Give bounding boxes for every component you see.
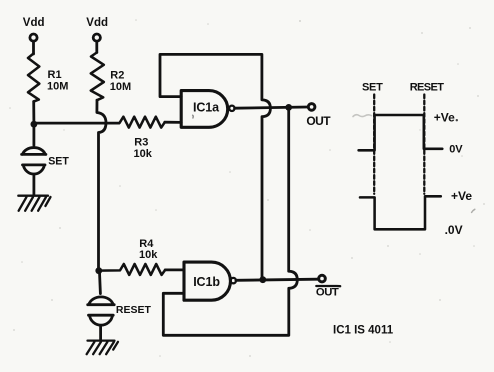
switch SET (push button) — [33, 125, 36, 145]
NAND gate IC1b — [184, 262, 230, 300]
svg-text:10M: 10M — [47, 81, 68, 93]
svg-text:10k: 10k — [134, 148, 153, 160]
wire node B down to RESET switch — [98, 272, 102, 294]
junction on IC1a output — [285, 104, 292, 111]
label OUT-bar with overline — [316, 285, 340, 288]
inverter bubble IC1b — [231, 278, 236, 283]
terminal Vdd right — [93, 34, 100, 41]
svg-text:+Ve: +Ve — [434, 110, 455, 124]
svg-text:RESET: RESET — [410, 82, 445, 94]
ground (RESET) — [87, 341, 118, 355]
wire R1 to node A — [32, 102, 35, 123]
terminal OUT (top) — [308, 104, 315, 111]
svg-text:0V: 0V — [449, 143, 463, 155]
timing diagram: dashed line under SET — [373, 95, 375, 194]
timing diagram: waveform OUT — [359, 115, 443, 150]
scan artifact: small slash near +Ve — [472, 209, 475, 212]
svg-text:SET: SET — [362, 82, 383, 94]
svg-text:10k: 10k — [139, 249, 158, 261]
wire IC1a output to OUT — [235, 107, 308, 108]
switch RESET (push button) — [88, 297, 115, 305]
svg-text:IC1a: IC1a — [193, 101, 220, 115]
timing diagram: dashed line under RESET — [423, 95, 425, 194]
terminal Vdd left — [30, 34, 37, 41]
junction node B (R2/R4/RESET) — [95, 267, 102, 274]
junction on IC1b output — [259, 276, 266, 283]
resistor R1 — [28, 54, 39, 102]
svg-text:OUT: OUT — [316, 287, 339, 299]
scan artifact: faint squiggle left of waveform — [353, 115, 372, 117]
svg-text:OUT: OUT — [306, 114, 331, 128]
wire R2 down with hop over node-A wire — [97, 100, 106, 268]
wire IC1b output to OUT-bar — [236, 279, 318, 280]
svg-text:R3: R3 — [134, 136, 148, 148]
svg-text:10M: 10M — [110, 81, 131, 93]
svg-text:RESET: RESET — [116, 304, 152, 316]
wire SET to ground — [33, 176, 36, 195]
ground (SET) — [18, 196, 50, 211]
terminal OUT-bar (bottom) — [319, 275, 326, 282]
svg-text:IC1 IS 4011: IC1 IS 4011 — [333, 324, 394, 336]
resistor R2 — [91, 53, 104, 101]
svg-text:Vdd: Vdd — [23, 17, 45, 29]
scan artifact: tiny comma under IC1a label — [192, 115, 195, 118]
wire R3 to IC1a input 2 — [165, 121, 181, 124]
svg-text:Vdd: Vdd — [86, 17, 108, 29]
resistor R3 — [120, 117, 165, 128]
wire RESET to ground — [99, 327, 102, 341]
NAND gate IC1a — [181, 91, 228, 128]
junction node A (R1/SET/R3) — [31, 121, 38, 128]
svg-text:R1: R1 — [48, 69, 62, 81]
inverter bubble IC1a — [229, 106, 234, 111]
timing diagram: waveform OUT-bar — [360, 196, 441, 229]
wire Vdd1 to R1 — [32, 42, 35, 55]
svg-text:.0V: .0V — [445, 223, 463, 237]
svg-text:R2: R2 — [110, 70, 124, 82]
wire R4 to IC1b input 1 — [165, 268, 184, 271]
wire feedback IC1b output to IC1a input 1 (with hop over IC1a out) — [160, 54, 270, 277]
svg-text:SET: SET — [48, 155, 69, 167]
wire node A horizontal to R3 — [34, 122, 120, 125]
svg-text:+Ve: +Ve — [451, 189, 472, 203]
svg-text:IC1b: IC1b — [193, 275, 220, 289]
wire Vdd2 to R2 — [95, 42, 98, 53]
resistor R4 — [99, 264, 165, 275]
wire feedback IC1a output to IC1b input 2 (with hop over IC1b out) — [163, 109, 297, 335]
